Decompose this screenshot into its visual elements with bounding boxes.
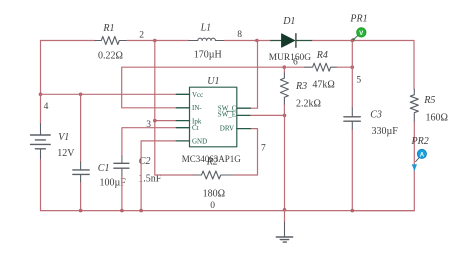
- pin DRV stub: [237, 128, 251, 130]
- svg-text:160Ω: 160Ω: [426, 113, 448, 124]
- wire GND pin to bottom rail: [141, 141, 176, 211]
- svg-text:C3: C3: [370, 110, 382, 121]
- wire C3 to bottom rail: [351, 130, 353, 211]
- svg-text:Vcc: Vcc: [192, 91, 203, 99]
- junction node 6: [283, 65, 287, 69]
- wire R2 right up to DRV: [234, 129, 258, 175]
- wire C1 branch upper: [80, 94, 82, 162]
- junction node 5: [351, 65, 355, 69]
- wire node2 vertical down to R2: [155, 41, 194, 176]
- pin IN- stub: [176, 107, 189, 109]
- node 4 junction: [39, 93, 43, 97]
- wire R5 to bottom right corner: [352, 122, 414, 211]
- pin SW_E stub: [237, 114, 250, 116]
- wire rail D1 to top right corner: [313, 40, 415, 42]
- svg-text:L1: L1: [200, 22, 212, 33]
- resistor R2: [194, 171, 235, 179]
- pin Ipk stub: [176, 120, 189, 122]
- resistor R1: [95, 37, 127, 45]
- svg-text:170µH: 170µH: [194, 49, 222, 60]
- svg-text:GND: GND: [192, 137, 207, 145]
- resistor R4: [305, 63, 337, 71]
- wire R4 to node 5: [337, 66, 352, 68]
- svg-text:MC34063AP1G: MC34063AP1G: [182, 154, 242, 164]
- svg-text:0: 0: [210, 201, 215, 211]
- svg-text:12V: 12V: [57, 148, 75, 159]
- capacitor C1: [73, 162, 89, 183]
- svg-text:IN-: IN-: [192, 104, 202, 112]
- svg-text:C1: C1: [98, 163, 110, 174]
- resistor R3: [280, 73, 288, 104]
- svg-text:0.22Ω: 0.22Ω: [98, 51, 123, 62]
- svg-text:R4: R4: [316, 50, 328, 61]
- wire IN- feedback run: node6 left and down to IN- pin: [122, 67, 285, 108]
- probe PR1: [352, 28, 366, 42]
- wire ground stub: [284, 210, 286, 222]
- wire rail between L1 and D1: [224, 40, 270, 42]
- svg-text:Ct: Ct: [192, 124, 199, 132]
- svg-text:A: A: [420, 152, 425, 158]
- node 8 junction: [255, 39, 259, 43]
- junction C1 top: [79, 93, 83, 97]
- svg-text:R5: R5: [423, 95, 435, 106]
- wire Ipk pin: [155, 120, 177, 122]
- junction C2 bottom: [120, 209, 124, 213]
- PR1 junction: [351, 39, 355, 43]
- junction GND bottom: [139, 209, 143, 213]
- svg-text:7: 7: [261, 143, 266, 153]
- svg-text:PR2: PR2: [411, 136, 429, 147]
- wire node6 down to R3: [283, 67, 285, 115]
- wire left branch: top corner down to battery: [40, 41, 42, 124]
- wire C1 to bottom rail: [80, 183, 82, 211]
- wire node5 vertical: [351, 41, 353, 109]
- svg-text:V: V: [359, 31, 363, 37]
- pin Ct stub: [176, 127, 189, 129]
- wire SW_E node down to ground rail: [284, 115, 286, 209]
- svg-text:330µF: 330µF: [372, 126, 399, 137]
- svg-text:2.2kΩ: 2.2kΩ: [296, 99, 321, 110]
- capacitor C2: [114, 156, 129, 177]
- wire top rail left segment: [41, 40, 96, 42]
- wire battery to bottom rail: [40, 160, 42, 211]
- svg-text:DRV: DRV: [220, 125, 234, 133]
- svg-text:U1: U1: [207, 76, 219, 87]
- svg-text:SW_E: SW_E: [218, 111, 236, 119]
- wire rail between R1 and L1: [127, 40, 189, 42]
- wire SW_E to R3 bottom: [250, 114, 285, 116]
- svg-text:R3: R3: [295, 81, 307, 92]
- svg-text:MUR160G: MUR160G: [269, 53, 311, 63]
- pin Vcc stub: [176, 93, 189, 95]
- wire bottom rail: [41, 210, 415, 212]
- svg-text:PR1: PR1: [349, 14, 367, 25]
- svg-text:V1: V1: [58, 132, 69, 143]
- svg-text:47kΩ: 47kΩ: [312, 80, 334, 91]
- svg-text:D1: D1: [282, 16, 295, 27]
- pin GND stub: [176, 140, 189, 142]
- svg-text:6: 6: [293, 58, 298, 68]
- svg-text:4: 4: [44, 102, 49, 112]
- junction C3 bottom: [351, 209, 355, 213]
- diode D1: [271, 34, 313, 48]
- svg-text:R1: R1: [102, 23, 114, 34]
- wire C2 to bottom rail: [121, 177, 123, 211]
- junction ground rail: [283, 208, 287, 212]
- op-amp U1 (MC34063 IC box): [176, 87, 250, 147]
- probe PR2: [412, 149, 427, 171]
- wire node6 to R4: [284, 66, 305, 68]
- wire SW_C up to node 8: [250, 41, 257, 109]
- battery V1: [31, 124, 51, 160]
- svg-text:5: 5: [356, 76, 361, 86]
- ground: [276, 222, 292, 242]
- wire Ct to C2: [122, 128, 176, 156]
- svg-text:3: 3: [146, 120, 151, 130]
- node 2 junction: [153, 39, 157, 43]
- node 3 junction: [153, 119, 157, 123]
- pin SW_C stub: [237, 107, 251, 109]
- svg-text:2: 2: [139, 31, 144, 41]
- wire right branch down: [413, 41, 415, 90]
- inductor L1: [189, 38, 225, 40]
- svg-text:180Ω: 180Ω: [203, 188, 225, 199]
- wire Vcc rail: [41, 93, 177, 95]
- resistor R5: [410, 89, 418, 122]
- junction SW_E / R3: [283, 114, 287, 118]
- junction C1 bottom: [79, 209, 83, 213]
- capacitor C3: [344, 108, 360, 130]
- svg-text:8: 8: [237, 30, 242, 40]
